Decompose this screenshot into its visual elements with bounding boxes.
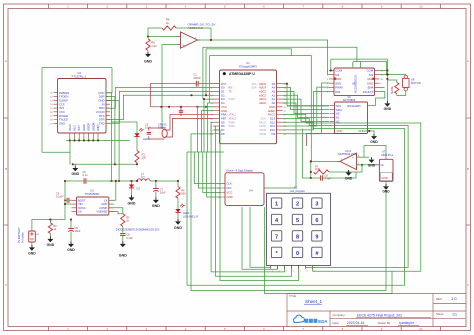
capacitor C4 bbox=[56, 191, 69, 203]
wire R7 right bbox=[329, 165, 362, 172]
svg-text:SDA: SDA bbox=[251, 87, 256, 90]
wire driver frame bbox=[329, 59, 387, 75]
battery B1 bbox=[17, 227, 40, 243]
wire SCL riser bbox=[286, 84, 288, 106]
wire D11 to PWM bbox=[283, 83, 330, 134]
wire feedback R6 to output bbox=[176, 28, 211, 40]
wire A0 to amp out bbox=[265, 103, 297, 188]
svg-text:TPS54560R: TPS54560R bbox=[85, 192, 99, 196]
wire COMP to R3 bbox=[109, 208, 123, 214]
wire R6 left to inverting input bbox=[148, 28, 178, 37]
svg-text:A3: A3 bbox=[272, 90, 276, 94]
svg-text:590: 590 bbox=[181, 192, 186, 196]
svg-text:9v holder: 9v holder bbox=[21, 232, 25, 243]
svg-text:PWREN: PWREN bbox=[59, 91, 69, 95]
wire SDA bbox=[283, 88, 330, 110]
svg-text:D5: D5 bbox=[221, 120, 225, 124]
wire output rail y181 bbox=[65, 180, 137, 182]
svg-text:100: 100 bbox=[142, 156, 147, 160]
wire LX up bbox=[109, 181, 116, 200]
resistor R5 bbox=[146, 39, 157, 51]
wire keypad column 1 bbox=[250, 207, 271, 267]
capacitor C2 bbox=[145, 122, 151, 134]
junctions bbox=[136, 163, 138, 165]
IC U1 ATMEGA328P bbox=[210, 61, 286, 144]
title block bbox=[287, 294, 466, 327]
svg-text:A1: A1 bbox=[272, 97, 276, 101]
IC U3 FT232RL bbox=[50, 71, 113, 137]
svg-text:GND: GND bbox=[345, 176, 353, 180]
svg-text:5: 5 bbox=[296, 218, 299, 224]
wire left loop bbox=[42, 68, 112, 153]
svg-text:GND: GND bbox=[382, 176, 388, 180]
svg-text:FT232RL_1: FT232RL_1 bbox=[72, 75, 87, 79]
svg-text:TXDEN: TXDEN bbox=[59, 95, 68, 99]
svg-text:LX: LX bbox=[104, 198, 107, 202]
wire FT232 gnd drop bbox=[69, 141, 71, 165]
junction output bbox=[210, 39, 212, 41]
wire long bottom A bbox=[191, 152, 386, 291]
svg-text:GND: GND bbox=[174, 226, 182, 230]
svg-text:VDD: VDD bbox=[337, 129, 343, 133]
svg-text:TEST: TEST bbox=[79, 125, 81, 131]
svg-text:REV:: REV: bbox=[436, 297, 443, 301]
svg-text:2: 2 bbox=[296, 202, 299, 208]
svg-text:3x4_Keypad: 3x4_Keypad bbox=[290, 189, 305, 193]
wire nested net B bbox=[206, 49, 311, 161]
svg-text:RTS: RTS bbox=[99, 114, 105, 118]
ground C7 bbox=[152, 198, 160, 209]
wire + input gnd bbox=[357, 156, 370, 158]
wire sensor supply bbox=[364, 146, 386, 160]
svg-text:EDA: EDA bbox=[318, 319, 328, 324]
svg-text:EECE 4275 Final Project_202: EECE 4275 Final Project_202 bbox=[357, 314, 402, 318]
svg-text:GND: GND bbox=[144, 60, 152, 64]
wire rail B bbox=[283, 118, 409, 267]
resistor R3 bbox=[121, 214, 130, 227]
IC U6 motor driver bbox=[327, 64, 384, 96]
wire after L1 bbox=[150, 180, 178, 182]
svg-text:GND: GND bbox=[221, 109, 227, 113]
ground amp bbox=[368, 157, 376, 167]
svg-text:GND: GND bbox=[47, 243, 55, 247]
svg-text:ROSC: ROSC bbox=[78, 206, 86, 210]
svg-text:+: + bbox=[183, 44, 185, 48]
svg-text:U1: U1 bbox=[246, 61, 250, 65]
wire keypad column 4 bbox=[216, 152, 292, 276]
crystal CRYS1 bbox=[158, 122, 167, 137]
svg-text:LED1: LED1 bbox=[143, 137, 150, 141]
svg-text:FAULT#: FAULT# bbox=[363, 90, 374, 94]
svg-text:U4: U4 bbox=[249, 189, 253, 193]
wire C5 bbox=[70, 220, 72, 242]
svg-text:ADC5: ADC5 bbox=[259, 82, 266, 86]
svg-text:TX: TX bbox=[229, 91, 233, 94]
svg-text:D1: D1 bbox=[137, 187, 141, 191]
svg-text:TXLED: TXLED bbox=[59, 118, 68, 122]
svg-text:RXD: RXD bbox=[99, 106, 105, 110]
svg-text:VCCIO: VCCIO bbox=[96, 110, 105, 114]
wire SCL bbox=[283, 84, 330, 106]
svg-text:Grove - 4 Digit Display: Grove - 4 Digit Display bbox=[226, 169, 254, 173]
svg-text:VIN: VIN bbox=[78, 202, 83, 206]
svg-text:PWM: PWM bbox=[229, 125, 235, 128]
svg-text:1/1: 1/1 bbox=[452, 312, 457, 316]
wire long bottom B bbox=[265, 207, 393, 294]
svg-text:VCC: VCC bbox=[227, 191, 233, 195]
svg-text:GND: GND bbox=[28, 251, 36, 255]
capacitor C6 bbox=[83, 170, 89, 184]
svg-text:A: A bbox=[467, 59, 469, 63]
capacitor C1 on reset line bbox=[193, 73, 201, 87]
svg-text:PWM: PWM bbox=[229, 98, 235, 101]
svg-text:Sheet:: Sheet: bbox=[436, 312, 444, 316]
svg-text:D3: D3 bbox=[221, 97, 225, 101]
wire DTR to D2 bbox=[106, 95, 214, 119]
svg-text:PWM: PWM bbox=[260, 132, 266, 136]
svg-text:GND: GND bbox=[384, 107, 392, 111]
wire bundle stubs bbox=[191, 99, 220, 152]
wire feedback column bbox=[310, 161, 312, 178]
keypad K1 3x4 bbox=[267, 185, 331, 272]
ground below R5 bbox=[144, 52, 152, 64]
svg-text:D7: D7 bbox=[221, 128, 225, 132]
svg-text:PB7: PB7 bbox=[221, 116, 227, 120]
svg-text:3V3: 3V3 bbox=[59, 106, 64, 110]
svg-text:Drawn By:: Drawn By: bbox=[378, 321, 391, 325]
svg-text:GND: GND bbox=[227, 195, 233, 199]
svg-text:RXLED: RXLED bbox=[59, 114, 68, 118]
wire crystal to PB6/PB7 bbox=[149, 115, 214, 139]
svg-text:CLK: CLK bbox=[227, 182, 233, 186]
svg-text:SENSE: SENSE bbox=[392, 86, 394, 94]
capacitor C9 bbox=[321, 175, 332, 181]
diode D1 bbox=[129, 185, 140, 191]
svg-text:B: B bbox=[5, 167, 7, 171]
svg-text:VSENSE: VSENSE bbox=[96, 210, 107, 214]
capacitor C5 bbox=[68, 226, 81, 233]
svg-text:9: 9 bbox=[315, 234, 318, 240]
svg-text:1m: 1m bbox=[141, 174, 145, 178]
wire op-amp output long to motor driver bbox=[198, 40, 330, 75]
svg-text:D10: D10 bbox=[270, 128, 276, 132]
svg-text:OS/ALERT: OS/ALERT bbox=[347, 104, 361, 108]
svg-text:A502 Pres: A502 Pres bbox=[381, 153, 394, 157]
resistor R2 bbox=[48, 223, 57, 234]
resistor R10 bbox=[392, 82, 399, 94]
wire amp output bbox=[311, 160, 337, 162]
svg-text:0.1uF*: 0.1uF* bbox=[56, 195, 64, 199]
svg-text:AREF: AREF bbox=[268, 109, 276, 113]
svg-text:GND: GND bbox=[67, 248, 75, 252]
wire U5 vdd red bbox=[307, 134, 337, 147]
svg-text:SCK: SCK bbox=[261, 116, 267, 120]
svg-text:D4: D4 bbox=[221, 101, 225, 105]
svg-text:AVCC: AVCC bbox=[268, 113, 275, 117]
capacitor C8 bbox=[120, 233, 133, 240]
wire FT232 bottom bus bbox=[66, 138, 130, 141]
svg-text:ADC1: ADC1 bbox=[259, 97, 266, 101]
wire RXD to D0 bbox=[106, 88, 214, 109]
svg-text:PBA: PBA bbox=[221, 113, 227, 117]
gnd rail bbox=[73, 163, 137, 165]
motor U8 bbox=[403, 75, 421, 91]
IC U5 ADT7086 bbox=[330, 95, 371, 133]
svg-text:10uF: 10uF bbox=[75, 229, 81, 233]
wire D12 drop bbox=[302, 129, 310, 178]
svg-text:100nF: 100nF bbox=[193, 76, 201, 80]
ground LED2 bbox=[174, 219, 182, 230]
wire keypad column 5 bbox=[220, 152, 299, 281]
ground below amp bbox=[345, 170, 353, 180]
wire D1 bbox=[131, 181, 133, 195]
svg-text:Company:: Company: bbox=[333, 313, 346, 317]
svg-text:D1: D1 bbox=[221, 90, 225, 94]
svg-text:COMP: COMP bbox=[99, 206, 107, 210]
inductor L1 bbox=[137, 171, 150, 181]
resistor R7 bbox=[314, 165, 330, 174]
svg-text:DTR: DTR bbox=[99, 118, 105, 122]
svg-text:ADC0: ADC0 bbox=[259, 101, 266, 105]
svg-text:LED-0603_R: LED-0603_R bbox=[183, 214, 198, 218]
svg-text:USBDP: USBDP bbox=[89, 123, 91, 131]
svg-text:RI: RI bbox=[102, 102, 105, 106]
svg-text:100k: 100k bbox=[315, 168, 321, 171]
svg-text:GND: GND bbox=[128, 202, 136, 206]
svg-text:ATmega328PU: ATmega328PU bbox=[239, 64, 257, 68]
svg-text:0.1uF: 0.1uF bbox=[126, 236, 133, 240]
svg-text:GND: GND bbox=[370, 140, 378, 144]
wire AVCC red bus bbox=[150, 106, 219, 108]
svg-text:SS: SS bbox=[78, 210, 82, 214]
wire keypad column 3 bbox=[211, 152, 284, 272]
wire LED1 top bbox=[112, 122, 137, 133]
ground FT232 bbox=[72, 166, 80, 176]
svg-text:OSCO: OSCO bbox=[70, 124, 72, 131]
svg-text:B: B bbox=[467, 167, 469, 171]
wire R10 bbox=[387, 80, 405, 96]
svg-text:Sheet_1: Sheet_1 bbox=[305, 299, 323, 304]
svg-text:D6: D6 bbox=[221, 124, 225, 128]
svg-text:ADT7086Z: ADT7086Z bbox=[343, 98, 356, 102]
svg-text:D0: D0 bbox=[221, 86, 225, 90]
svg-text:A: A bbox=[5, 59, 7, 63]
svg-text:GND: GND bbox=[98, 98, 104, 102]
op-amp U6.A MCP6004 bbox=[337, 149, 360, 170]
svg-text:DIR: DIR bbox=[335, 90, 340, 94]
svg-text:OSCI: OSCI bbox=[75, 125, 77, 131]
svg-text:ADC3: ADC3 bbox=[259, 90, 266, 94]
svg-text:MISO: MISO bbox=[259, 120, 266, 124]
svg-text:ADC4: ADC4 bbox=[259, 86, 266, 90]
IC U2 TPS54560 bbox=[72, 188, 114, 215]
capacitor C3 decoupling bbox=[179, 107, 183, 116]
wire driver right side bbox=[387, 70, 406, 101]
wire vertical drops right of FT232 bbox=[106, 93, 119, 181]
svg-text:D8: D8 bbox=[221, 132, 225, 136]
svg-text:16MHz: 16MHz bbox=[158, 125, 167, 129]
svg-text:GND: GND bbox=[358, 129, 364, 133]
svg-text:RST: RST bbox=[221, 82, 227, 86]
wire A1 bbox=[283, 95, 330, 117]
ground battery bbox=[31, 242, 33, 245]
wire C8 to gnd bbox=[122, 235, 124, 241]
svg-text:6: 6 bbox=[315, 218, 318, 224]
svg-text:D11: D11 bbox=[270, 124, 275, 128]
svg-text:8: 8 bbox=[296, 234, 299, 240]
wire LED1 to R1 bbox=[136, 137, 138, 164]
wire display signals bbox=[194, 152, 220, 197]
svg-text:VCC: VCC bbox=[59, 110, 65, 114]
svg-text:SCL: SCL bbox=[252, 83, 257, 86]
op-amp U9 AD8534AR bbox=[178, 23, 217, 49]
ground C8 bbox=[119, 242, 127, 258]
wire rail A bbox=[283, 115, 421, 272]
svg-text:GND: GND bbox=[152, 204, 160, 208]
svg-text:D9: D9 bbox=[271, 132, 275, 136]
svg-text:Date:: Date: bbox=[333, 321, 340, 325]
svg-text:DCD: DCD bbox=[99, 91, 105, 95]
svg-text:U7: U7 bbox=[382, 150, 386, 154]
svg-text:D12: D12 bbox=[270, 120, 276, 124]
svg-text:A0: A0 bbox=[272, 101, 276, 105]
svg-text:DIO: DIO bbox=[227, 186, 232, 190]
wire R2 bbox=[49, 220, 51, 237]
wire boot row bbox=[65, 181, 72, 220]
wire EN to U5 alert bbox=[371, 87, 385, 105]
wire A0 bbox=[283, 91, 330, 113]
svg-text:GND: GND bbox=[72, 172, 80, 176]
svg-text:XTAL1: XTAL1 bbox=[229, 114, 237, 117]
svg-text:SLEEP: SLEEP bbox=[59, 98, 68, 102]
svg-text:PWM: PWM bbox=[260, 128, 266, 132]
ground R2 bbox=[47, 237, 55, 247]
svg-text:3: 3 bbox=[315, 202, 318, 208]
svg-text:10uF: 10uF bbox=[160, 191, 166, 195]
ground D1 bbox=[128, 195, 136, 206]
svg-text:D2: D2 bbox=[221, 93, 225, 97]
svg-text:U8: U8 bbox=[411, 78, 415, 82]
wire op-amp + input down bbox=[162, 45, 178, 130]
svg-text:10pF: 10pF bbox=[145, 125, 151, 129]
svg-text:TITLE:: TITLE: bbox=[289, 294, 297, 298]
wire inverting input to sensor bbox=[357, 164, 380, 166]
wire battery rail bbox=[32, 220, 65, 232]
svg-text:0.1u: 0.1u bbox=[83, 173, 89, 177]
svg-text:GND: GND bbox=[368, 163, 376, 167]
resistor R6 bbox=[162, 18, 176, 31]
svg-text:CTS: CTS bbox=[59, 102, 65, 106]
ground driver bbox=[384, 101, 392, 111]
svg-text:MOTOR: MOTOR bbox=[411, 81, 421, 85]
svg-text:GND: GND bbox=[119, 254, 127, 258]
svg-text:AGND: AGND bbox=[83, 124, 86, 131]
wire nested net A bbox=[203, 47, 357, 99]
svg-text:PWM: PWM bbox=[229, 121, 235, 124]
svg-text:ATMEGA328P U: ATMEGA328P U bbox=[229, 72, 255, 76]
svg-text:VCC: VCC bbox=[221, 105, 227, 109]
wire VSENSE stub bbox=[109, 212, 123, 214]
svg-text:GND3: GND3 bbox=[98, 124, 100, 131]
wire A2 bbox=[283, 99, 330, 121]
svg-text:DIODEZENER3.3V560MWSOD-523: DIODEZENER3.3V560MWSOD-523 bbox=[116, 227, 160, 231]
svg-text:BOOT: BOOT bbox=[78, 198, 86, 202]
svg-text:1.2k: 1.2k bbox=[151, 44, 157, 48]
svg-text:RX: RX bbox=[229, 87, 233, 90]
svg-text:7: 7 bbox=[275, 234, 278, 240]
sensor U7 bbox=[374, 150, 393, 182]
svg-text:GND: GND bbox=[101, 202, 107, 206]
wire U5 gnd bbox=[365, 131, 375, 134]
wire reset line bbox=[150, 84, 219, 107]
svg-text:A2: A2 bbox=[272, 93, 276, 97]
LED1 bbox=[134, 128, 150, 141]
svg-text:A5: A5 bbox=[272, 82, 276, 86]
LED2 bbox=[175, 204, 198, 219]
capacitor C7 bbox=[153, 187, 166, 194]
wire rail C bbox=[187, 122, 405, 285]
svg-text:GND: GND bbox=[382, 190, 390, 194]
svg-text:MOSI: MOSI bbox=[259, 124, 266, 128]
svg-text:ryantaylor: ryantaylor bbox=[399, 321, 415, 325]
wire R4 bbox=[177, 181, 179, 209]
svg-text:XTAL2: XTAL2 bbox=[229, 117, 237, 120]
svg-text:0: 0 bbox=[296, 251, 299, 257]
wire C9 bbox=[311, 172, 356, 178]
svg-text:GND: GND bbox=[269, 105, 275, 109]
svg-text:A4: A4 bbox=[272, 86, 276, 90]
ground C5 bbox=[67, 242, 75, 252]
wire LED2 to gnd bbox=[177, 213, 179, 219]
ground U5 bbox=[370, 134, 378, 144]
wire gnd below amp bbox=[348, 170, 350, 172]
svg-text:−: − bbox=[183, 35, 185, 39]
wire C7 bbox=[155, 181, 157, 198]
svg-text:USBDM: USBDM bbox=[93, 123, 95, 131]
svg-text:10: 10 bbox=[419, 4, 423, 8]
junction bbox=[147, 36, 149, 38]
wire VIN row bbox=[65, 203, 72, 205]
svg-text:MC33HB2001EK: MC33HB2001EK bbox=[355, 74, 358, 93]
svg-text:GND: GND bbox=[59, 121, 65, 125]
svg-text:DSR: DSR bbox=[99, 95, 105, 99]
wire keypad column 2 bbox=[242, 207, 278, 269]
wire R3 to C8 bbox=[122, 226, 124, 232]
svg-text:1.0: 1.0 bbox=[451, 296, 457, 301]
svg-text:ADC2: ADC2 bbox=[259, 93, 266, 97]
module U4 Grove 4-digit display bbox=[218, 169, 264, 206]
svg-text:1: 1 bbox=[275, 202, 278, 208]
svg-text:10: 10 bbox=[419, 327, 423, 331]
wire TXD to D1 bbox=[106, 91, 214, 123]
resistor R4 bbox=[176, 187, 186, 199]
svg-text:U2: U2 bbox=[90, 188, 94, 192]
EasyEDA logo bbox=[294, 315, 329, 324]
resistor R1 bbox=[135, 151, 146, 163]
svg-text:D13: D13 bbox=[270, 116, 276, 120]
ground sensor bbox=[385, 181, 387, 184]
svg-text:9V BATTERY: 9V BATTERY bbox=[17, 227, 21, 243]
svg-text:2023-04-16: 2023-04-16 bbox=[347, 321, 364, 325]
svg-text:Op: Op bbox=[381, 163, 385, 167]
